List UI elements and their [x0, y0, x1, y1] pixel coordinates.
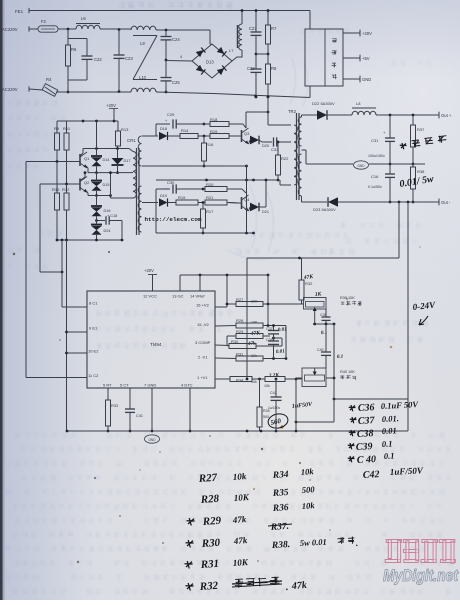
pin 7 GND [144, 383, 156, 388]
pin 1 +V1 [197, 375, 230, 380]
svg-text:R30: R30 [200, 537, 221, 550]
svg-text:9 E1: 9 E1 [89, 326, 98, 331]
ground GND main [145, 435, 160, 443]
capacitor C30 [165, 180, 204, 194]
resistor R31 [236, 352, 287, 362]
svg-text:16 +V2: 16 +V2 [196, 303, 210, 308]
resistor R35 [257, 379, 270, 431]
svg-text:13 GC: 13 GC [172, 294, 184, 299]
svg-text:L7: L7 [229, 48, 234, 53]
svg-text:C24: C24 [172, 37, 180, 42]
elecm watermark text [145, 216, 203, 223]
capacitor C23 [114, 30, 134, 92]
svg-text:TR2: TR2 [288, 109, 297, 114]
svg-text:10K: 10K [232, 557, 249, 568]
diode D22 [312, 101, 352, 120]
wire L6 to choke [100, 28, 131, 31]
wire HV rail down [268, 97, 291, 125]
svg-text:10k: 10k [264, 384, 270, 388]
handwritten resistor list right [268, 466, 358, 551]
wire R40 left down [295, 378, 298, 431]
svg-text:3 COMP: 3 COMP [195, 340, 211, 345]
svg-text:R28: R28 [236, 318, 244, 323]
wire emitter rail 1 [88, 172, 133, 174]
svg-text:C42: C42 [363, 469, 380, 481]
svg-text:8 C1: 8 C1 [89, 301, 98, 306]
wire left loop B [40, 184, 62, 272]
svg-text:+20V: +20V [144, 268, 154, 273]
svg-text:R39 10K: R39 10K [340, 296, 355, 300]
wire left loop A [26, 162, 87, 378]
svg-text:15 -V2: 15 -V2 [197, 322, 210, 327]
svg-text:10k: 10k [232, 471, 247, 482]
handwriting 0-24V [412, 300, 436, 325]
pin 10 E2 [88, 349, 99, 354]
svg-text:C41: C41 [136, 414, 143, 418]
svg-text:7 GND: 7 GND [144, 383, 156, 388]
svg-text:100u/150v: 100u/150v [368, 154, 385, 158]
wire F2 to L6 [58, 28, 76, 31]
svg-text:R34: R34 [272, 470, 290, 481]
transistor Q1 [26, 149, 90, 173]
handwritten capacitor list [348, 399, 424, 481]
svg-text:4 DTC: 4 DTC [181, 383, 193, 388]
faint pen bleed curves [228, 58, 308, 259]
svg-text:R22: R22 [281, 156, 289, 161]
capacitor C38 [266, 334, 285, 359]
svg-text:+5V: +5V [362, 56, 370, 61]
svg-text:Q1: Q1 [84, 156, 90, 161]
svg-text:R17: R17 [206, 209, 214, 214]
label TR1 [127, 138, 136, 143]
handwritten resistor list left [185, 471, 308, 593]
svg-text:D17: D17 [124, 159, 131, 163]
svg-text:R27: R27 [197, 472, 218, 485]
svg-text:C30: C30 [167, 180, 175, 185]
wire rowA corner [142, 124, 170, 136]
terminal GND aux [343, 76, 371, 83]
svg-text:R32: R32 [305, 281, 313, 286]
svg-text:10k: 10k [301, 500, 315, 511]
node AC220V top [2, 26, 38, 32]
svg-text:47k: 47k [232, 535, 248, 546]
svg-text:Out +: Out + [441, 113, 452, 118]
svg-text:D19: D19 [160, 194, 167, 198]
svg-text:GND: GND [148, 438, 156, 442]
wire TR2 top out [302, 115, 318, 117]
svg-text:5 RT: 5 RT [103, 383, 112, 388]
svg-text:C 40: C 40 [357, 454, 377, 466]
resistor R30 [227, 337, 282, 349]
pin 5 RT [103, 383, 112, 388]
svg-text:R38.: R38. [271, 540, 291, 551]
svg-text:Tl494: Tl494 [150, 342, 162, 347]
svg-text:C39: C39 [356, 441, 373, 453]
wire pot rail [313, 315, 335, 325]
capacitor C41 [125, 388, 143, 432]
svg-text:47k: 47k [231, 514, 247, 525]
diode D21 [249, 179, 269, 214]
svg-text:14 VRef: 14 VRef [190, 294, 205, 299]
resistor R34 [230, 377, 265, 385]
svg-text:R37.: R37. [270, 522, 290, 533]
node +20V at VCC [144, 268, 157, 291]
resistor R11 [63, 121, 71, 184]
svg-text:Q3: Q3 [244, 131, 250, 136]
svg-text:+20V: +20V [106, 103, 116, 108]
svg-text:11 C2: 11 C2 [88, 373, 99, 378]
svg-text:Out -: Out - [441, 200, 451, 205]
transistor Q3 [229, 128, 250, 144]
svg-text:10K: 10K [233, 492, 250, 503]
capacitor C29 [165, 112, 205, 129]
wire Q4 emitter down [246, 166, 248, 233]
handwritten 560 circled [267, 412, 289, 430]
choke L10 winding [131, 75, 156, 92]
wire pin4 DTC down [189, 388, 192, 432]
transformer TR1 [133, 136, 142, 235]
diode D19 [156, 194, 176, 207]
svg-text:0.1uF 50V: 0.1uF 50V [381, 399, 420, 411]
wire bottom rail [66, 430, 408, 433]
capacitor C26 [247, 54, 262, 98]
svg-text:R4: R4 [46, 77, 52, 82]
wire choke bottom rail [156, 92, 310, 98]
resistor R19 [210, 129, 239, 139]
watermark MyDigit [383, 540, 459, 586]
svg-text:R32: R32 [198, 580, 219, 593]
resistor R37 [411, 115, 426, 165]
svg-text:5w 0.01: 5w 0.01 [300, 537, 327, 548]
svg-text:+: + [165, 187, 167, 191]
svg-text:C37: C37 [358, 415, 376, 427]
svg-text:1u/150v: 1u/150v [268, 406, 280, 410]
svg-text:C38: C38 [357, 428, 374, 440]
svg-text:R15: R15 [178, 195, 186, 200]
capacitor C22 [82, 39, 103, 81]
resistor R9 [54, 121, 60, 162]
wire +20V rail [57, 120, 118, 123]
svg-text:D20: D20 [262, 144, 269, 148]
svg-text:C16: C16 [371, 174, 379, 179]
svg-text:+: + [165, 119, 167, 123]
svg-text:C29: C29 [167, 112, 175, 117]
svg-text:C22: C22 [94, 57, 102, 62]
capacitor C27 [249, 9, 262, 55]
wire PE rail [29, 11, 310, 30]
pin 3 COMP [195, 340, 229, 346]
svg-text:2.2K: 2.2K [268, 372, 280, 379]
wire chain to C1 route [61, 240, 87, 307]
ground GND output [354, 161, 369, 169]
inductor L6 [76, 16, 100, 29]
svg-text:1uF/50V: 1uF/50V [390, 465, 424, 477]
wire rowA bottom rail [142, 165, 248, 168]
pin 16 +V2 [196, 303, 227, 308]
wire bottom rail right up [407, 399, 409, 431]
potentiometer R39 [304, 291, 362, 315]
svg-text:D24: D24 [104, 229, 111, 233]
capacitor C24 [161, 30, 181, 61]
wire C27 R7 join [256, 53, 268, 55]
wire to Out+ [376, 112, 452, 119]
pin 13 GC [172, 294, 184, 299]
svg-text:GND: GND [357, 164, 365, 168]
inductor L7 [238, 9, 244, 50]
svg-text:1K: 1K [315, 291, 322, 298]
svg-text:D16: D16 [104, 209, 111, 213]
wire mid to bridge [166, 54, 192, 61]
svg-text:+ C18: + C18 [107, 214, 117, 218]
diode D17 [112, 149, 131, 175]
svg-text:12 VCC: 12 VCC [143, 294, 157, 299]
resistor R12 [62, 184, 70, 240]
svg-text:C31: C31 [371, 138, 379, 143]
wire VRef rail [180, 274, 269, 291]
svg-text:L8: L8 [356, 101, 361, 106]
resistor R6 [66, 29, 88, 93]
svg-text:0.01: 0.01 [382, 425, 397, 436]
wire TR2 bottom out [302, 196, 328, 202]
wire pin13 riser [179, 275, 181, 291]
wire emitter rail 2 [88, 171, 133, 198]
pin 15 -V2 [197, 322, 236, 327]
resistor R22 [276, 142, 290, 181]
capacitor C16 [368, 164, 395, 203]
diode D16 [91, 196, 110, 217]
wire R10 R12 bottom rail [56, 239, 124, 242]
diode D15 [91, 173, 109, 197]
bridge rectifier D13 [192, 44, 232, 78]
inductor L8 [352, 101, 376, 115]
diode D20 [249, 136, 269, 148]
fuse F2 [38, 19, 58, 32]
transistor Q4 [229, 195, 250, 211]
wire feedback Isense [247, 202, 399, 259]
svg-text:R21: R21 [206, 195, 214, 200]
wire C divider column [285, 326, 287, 359]
svg-text:0.1: 0.1 [382, 438, 393, 449]
handwriting R38 value [399, 174, 435, 190]
wire pin7 GND down [151, 388, 154, 432]
transistor Q2 [40, 171, 90, 195]
svg-text:L6: L6 [81, 16, 86, 21]
svg-text:AC220V: AC220V [2, 27, 18, 32]
resistor R18 [204, 117, 246, 128]
wire feedback Vsense [333, 202, 408, 400]
svg-text:R35: R35 [272, 488, 290, 499]
diode D14 [91, 121, 109, 174]
svg-text:MyDigit.net: MyDigit.net [383, 566, 459, 585]
wire TR2 bottom tap [280, 180, 291, 185]
resistor R28 [236, 275, 286, 328]
resistor R27 [226, 275, 302, 307]
choke L9 winding [131, 26, 156, 46]
resistor R8 [266, 54, 278, 98]
svg-text:R33: R33 [111, 404, 118, 408]
resistor R21 [205, 195, 238, 205]
pin 14 VRef [190, 294, 205, 299]
varistor R4 [42, 77, 58, 96]
svg-text:FE1: FE1 [15, 9, 24, 14]
svg-text:GND: GND [362, 77, 371, 82]
svg-text:R37: R37 [417, 127, 425, 132]
capacitor C40 [317, 324, 343, 368]
resistor R13 [116, 121, 130, 149]
svg-text:AC220V: AC220V [2, 87, 18, 92]
svg-text:10 E2: 10 E2 [88, 349, 99, 354]
capacitor C25 [161, 60, 181, 93]
svg-text:47k: 47k [290, 580, 307, 592]
capacitor C18 [95, 214, 122, 240]
pin 12 VCC [143, 294, 157, 299]
svg-text:D22 5A300V: D22 5A300V [312, 101, 335, 106]
svg-text:R40 10K: R40 10K [340, 370, 355, 374]
resistor R10 [52, 162, 60, 241]
svg-text:http://elecm.com: http://elecm.com [145, 216, 203, 223]
capacitor C31 [368, 115, 395, 165]
wire choke top to bridge [156, 29, 212, 45]
resistor R16 [202, 136, 215, 167]
resistor R36 [264, 372, 302, 388]
handwriting optional note [400, 135, 447, 149]
svg-text:D13: D13 [206, 60, 214, 65]
svg-text:5 CT: 5 CT [120, 383, 129, 388]
pin 8 C1 [62, 301, 98, 308]
transformer TR2 [288, 109, 302, 200]
svg-text:10k: 10k [300, 466, 314, 477]
IC TL494 box [87, 291, 215, 388]
node PE1 [15, 8, 29, 14]
choke core [133, 36, 157, 80]
resistor R17 [201, 203, 215, 235]
svg-text:D23 5A300V: D23 5A300V [313, 207, 336, 212]
wire bridge to L7 [229, 48, 242, 61]
svg-text:CR1: CR1 [127, 138, 136, 143]
resistor R32 [299, 258, 314, 304]
pin 5 CT [120, 383, 129, 388]
svg-text:R10: R10 [52, 187, 60, 192]
svg-text:L10: L10 [139, 75, 147, 80]
svg-text:1 +V1: 1 +V1 [197, 375, 208, 380]
svg-text:R28: R28 [199, 493, 220, 506]
svg-text:R16: R16 [206, 142, 214, 147]
svg-text:D14: D14 [103, 158, 110, 162]
wire mid output rail [302, 150, 426, 164]
svg-text:Q2: Q2 [84, 180, 90, 185]
svg-text:0.01: 0.01 [276, 350, 285, 355]
svg-text:R29: R29 [201, 515, 222, 528]
wire rowB bottom rail [156, 189, 255, 234]
svg-text:R6: R6 [71, 47, 77, 52]
svg-text:R36: R36 [272, 503, 290, 514]
resistor R33 [106, 388, 118, 432]
svg-text:+20V: +20V [362, 31, 372, 36]
diode D18 [142, 127, 180, 140]
wire E1 E2 drops [65, 240, 87, 431]
resistor R15 [176, 195, 205, 205]
svg-text:0.01.: 0.01. [382, 413, 400, 424]
resistor R29 [227, 329, 270, 346]
node +20V primary [106, 103, 118, 121]
svg-text:L9: L9 [140, 41, 145, 46]
label TL494 [150, 342, 162, 347]
svg-text:500: 500 [263, 415, 269, 419]
terminal +5V [343, 55, 370, 62]
svg-text:R38: R38 [417, 169, 425, 174]
svg-text:2 -V1: 2 -V1 [198, 355, 208, 360]
capacitor C42 [268, 379, 313, 431]
pin 9 E1 [89, 326, 98, 331]
resistor R38 [411, 164, 426, 203]
wire collector rail [83, 147, 133, 151]
svg-text:R7: R7 [271, 26, 277, 31]
resistor R20 [203, 182, 246, 193]
scan specks [13, 57, 421, 563]
svg-text:R14: R14 [181, 128, 189, 133]
svg-text:R31: R31 [199, 558, 219, 571]
diode D23 [313, 197, 451, 212]
terminal +20V [343, 30, 372, 37]
node AC220V bottom [2, 86, 43, 92]
auxiliary supply module [305, 29, 343, 86]
svg-text:C36: C36 [358, 402, 375, 414]
svg-text:D18: D18 [160, 127, 167, 131]
svg-text:D21: D21 [262, 210, 269, 214]
pin 4 DTC [181, 383, 193, 388]
svg-text:R8: R8 [271, 66, 277, 71]
wire sense column [246, 258, 249, 380]
svg-text:47k: 47k [247, 341, 256, 347]
pin 2 -V1 [198, 355, 236, 360]
wire Q3 collector supply [246, 111, 269, 128]
svg-text:0.1: 0.1 [384, 450, 395, 461]
svg-text:500: 500 [301, 484, 315, 495]
svg-text:R13: R13 [121, 127, 129, 132]
svg-text:0.1: 0.1 [337, 355, 344, 360]
capacitor C39 [320, 309, 331, 336]
svg-text:F2: F2 [41, 19, 47, 24]
wire mid rail primary [156, 179, 278, 182]
diode D24 [91, 216, 110, 240]
svg-text:0.1u/50v: 0.1u/50v [368, 185, 382, 189]
capacitor C37 [266, 324, 287, 334]
capacitor C33 [262, 137, 291, 152]
resistor R7 [266, 9, 278, 55]
wire R4 to choke [56, 90, 131, 93]
resistor R14 [180, 128, 210, 139]
wire pot column [295, 324, 336, 423]
svg-text:0.01: 0.01 [278, 328, 287, 333]
potentiometer R40 [296, 368, 356, 387]
pin 11 C2 [88, 373, 99, 378]
svg-text:D15: D15 [103, 183, 110, 187]
svg-text:C23: C23 [125, 56, 133, 61]
wire bottom rail to aux box [309, 86, 311, 98]
wire rowB corner [142, 189, 170, 203]
svg-text:C25: C25 [172, 80, 180, 85]
